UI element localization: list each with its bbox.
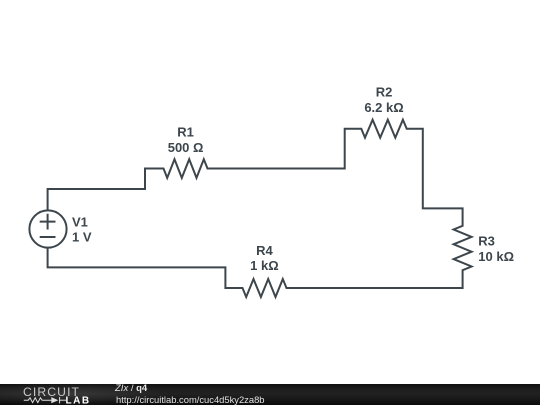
svg-text:500 Ω: 500 Ω [168,140,204,155]
svg-text:R2: R2 [376,85,393,100]
svg-text:R3: R3 [478,234,495,249]
svg-text:LAB: LAB [66,396,91,405]
svg-text:6.2 kΩ: 6.2 kΩ [364,100,403,115]
svg-text:R1: R1 [177,125,194,140]
svg-text:1 kΩ: 1 kΩ [250,258,279,273]
svg-text:10 kΩ: 10 kΩ [478,249,514,264]
svg-text:V1: V1 [72,214,88,229]
svg-text:1 V: 1 V [72,230,92,245]
svg-text:R4: R4 [256,243,273,258]
